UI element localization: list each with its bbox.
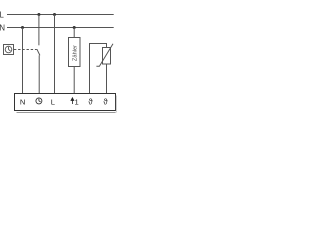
- svg-text:ϑ: ϑ: [103, 97, 108, 106]
- terminal clock symbol face: [36, 98, 42, 104]
- junction dot on N bus at x=22.5: [21, 26, 24, 29]
- switch S1 blade: [37, 49, 40, 55]
- dashed mechanical link timer to switch: [14, 49, 37, 51]
- junction dot on N bus at x=74: [73, 26, 76, 29]
- timer clock face: [5, 46, 12, 53]
- svg-text:L: L: [51, 97, 55, 106]
- svg-text:N: N: [0, 23, 5, 32]
- junction dot on L bus at x=39: [37, 13, 40, 16]
- wire L bus: [7, 14, 114, 16]
- wire N bus to load box: [73, 28, 75, 38]
- terminal 1 output arrow: [71, 98, 74, 104]
- svg-text:1: 1: [75, 97, 79, 106]
- svg-text:Zähler: Zähler: [72, 45, 78, 61]
- wire L bus to switch: [38, 15, 40, 46]
- load box (Zähler): [69, 38, 81, 67]
- wire thermistor to terminal theta2: [106, 64, 108, 94]
- junction dot on L bus at x=54.5: [53, 13, 56, 16]
- wire N bus to terminal N: [22, 28, 24, 94]
- timer clock box: [4, 45, 14, 55]
- wire L bus to terminal L: [54, 15, 56, 94]
- terminal strip body: [15, 94, 116, 111]
- thermistor body: [103, 48, 111, 65]
- svg-text:ϑ: ϑ: [88, 97, 93, 106]
- svg-text:N: N: [20, 97, 25, 106]
- timer clock hands: [9, 47, 11, 51]
- thermistor diagonal mark: [96, 44, 113, 66]
- terminal strip bottom shadow: [17, 112, 116, 114]
- terminal strip right shadow: [115, 96, 117, 113]
- wire switch to terminal clock: [38, 55, 40, 93]
- wire sensor loop left branch: [90, 44, 107, 94]
- wire load box to terminal 1: [73, 67, 75, 94]
- svg-text:L: L: [0, 10, 5, 19]
- terminal clock symbol hands: [39, 99, 41, 102]
- wire N bus: [7, 27, 114, 29]
